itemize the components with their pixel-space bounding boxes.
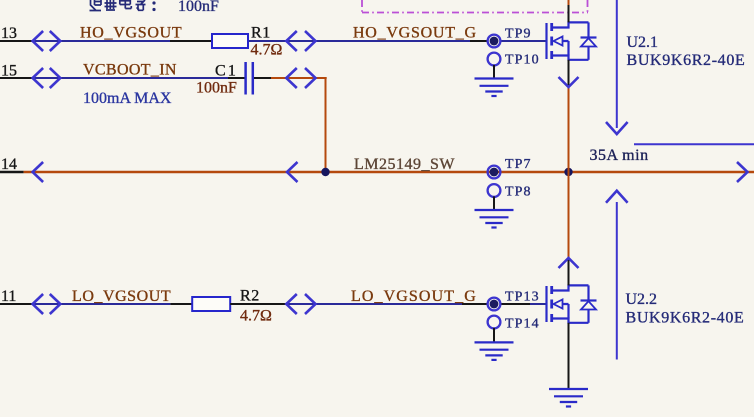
svg-text:14: 14 xyxy=(1,156,17,173)
svg-text:BUK9K6R2-40E: BUK9K6R2-40E xyxy=(627,52,746,69)
svg-text:VCBOOT_IN: VCBOOT_IN xyxy=(83,62,177,79)
svg-text:R1: R1 xyxy=(251,25,271,42)
svg-text:100mA MAX: 100mA MAX xyxy=(83,90,172,107)
svg-text:LO_VGSOUT: LO_VGSOUT xyxy=(72,288,171,305)
svg-text:11: 11 xyxy=(1,288,16,305)
svg-text:HO_VGSOUT_G: HO_VGSOUT_G xyxy=(353,25,477,42)
svg-text:100nF: 100nF xyxy=(178,0,219,15)
svg-text:35A min: 35A min xyxy=(590,147,649,164)
svg-text:TP14: TP14 xyxy=(505,316,540,331)
svg-text:HO_VGSOUT: HO_VGSOUT xyxy=(80,25,182,42)
svg-text:4.7Ω: 4.7Ω xyxy=(251,42,283,59)
svg-text:15: 15 xyxy=(1,63,17,80)
svg-text:13: 13 xyxy=(1,25,17,42)
svg-text:C1: C1 xyxy=(215,63,238,80)
svg-text:LM25149_SW: LM25149_SW xyxy=(354,156,455,173)
svg-text:TP13: TP13 xyxy=(505,289,540,304)
svg-text:R2: R2 xyxy=(240,288,260,305)
svg-text:TP9: TP9 xyxy=(505,26,532,41)
svg-text:TP8: TP8 xyxy=(505,184,532,199)
svg-text:TP10: TP10 xyxy=(505,53,540,68)
svg-text:U2.1: U2.1 xyxy=(627,34,659,51)
svg-text:LO_VGSOUT_G: LO_VGSOUT_G xyxy=(351,288,477,305)
svg-text:BUK9K6R2-40E: BUK9K6R2-40E xyxy=(626,310,745,327)
svg-text:100nF: 100nF xyxy=(196,80,237,97)
svg-text:U2.2: U2.2 xyxy=(626,291,658,308)
svg-text:TP7: TP7 xyxy=(505,157,532,172)
svg-text:4.7Ω: 4.7Ω xyxy=(240,308,272,325)
